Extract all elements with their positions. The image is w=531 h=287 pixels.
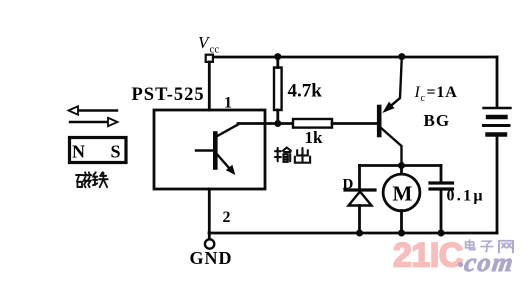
wire: diode anode to bottom rail: [358, 206, 361, 234]
junction: collector node over motor: [398, 162, 405, 169]
motor M circle: [383, 174, 420, 211]
svg-text:0.1µ: 0.1µ: [447, 188, 485, 205]
svg-text:I: I: [414, 84, 421, 101]
watermark: .com script: [458, 248, 516, 277]
magnet N-S box: [70, 138, 127, 163]
wire: right side lower (battery - to bottom rail): [496, 136, 499, 233]
svg-text:1k: 1k: [305, 128, 324, 147]
svg-text:S: S: [111, 142, 121, 162]
wire: motor bottom to rail: [400, 211, 403, 234]
label: citie (magnet) CJK drawn glyphs: [76, 172, 108, 187]
svg-text:=1A: =1A: [427, 84, 458, 101]
svg-text:N: N: [72, 142, 85, 162]
svg-text:c: c: [421, 93, 426, 104]
wire: capacitor to bottom rail: [440, 191, 443, 234]
capacitor C1 plates 0.1u: [430, 183, 453, 189]
wire: R2 to base of Q1: [332, 122, 377, 125]
hall IC U1 PST-525 box: [154, 110, 265, 189]
svg-text:GND: GND: [190, 248, 233, 268]
svg-text:BG: BG: [424, 111, 451, 130]
terminal: GND circle: [205, 239, 214, 248]
svg-text:D: D: [343, 177, 354, 193]
junction: node A (R1/1k/output): [274, 120, 281, 127]
battery B1: [484, 108, 511, 135]
magnet motion arrow right: [70, 118, 118, 126]
wire: motor branch top (diode to cap): [360, 164, 442, 167]
junction: rail over Q1 emitter: [398, 53, 405, 60]
transistor inside U1: base bar: [213, 134, 218, 168]
wire: collector node to motor top: [400, 166, 403, 175]
wire: pin 2 of U1 down to GND: [208, 189, 211, 239]
svg-text:M: M: [393, 182, 413, 206]
junction: motor on bottom rail: [398, 230, 405, 237]
wire: U1 output (collector) to node A: [238, 122, 293, 125]
svg-text:21IC: 21IC: [393, 237, 463, 275]
svg-text:1: 1: [224, 95, 232, 112]
svg-text:PST-525: PST-525: [132, 85, 205, 105]
wire: top to capacitor C1: [440, 166, 443, 182]
svg-text:com: com: [463, 248, 517, 277]
transistor Q1 BG base bar: [377, 107, 382, 135]
magnet motion arrow left: [69, 106, 118, 114]
svg-text:4.7k: 4.7k: [288, 81, 323, 102]
wire: Vcc terminal down to pin 1 of U1: [208, 62, 211, 110]
watermark: dianziwang CJK drawn glyphs: [466, 240, 513, 253]
resistor R1 4.7k body: [274, 68, 282, 111]
junction: diode on bottom rail: [356, 230, 363, 237]
label: Ic=1A: [414, 84, 458, 104]
wire: bottom ground rail: [209, 232, 497, 235]
transistor inside U1: emitter diagonal: [216, 153, 231, 170]
transistor Q1 BG collector lead: [381, 128, 402, 166]
wire: R1 bottom to node A: [276, 110, 279, 124]
svg-text:2: 2: [223, 209, 231, 226]
junction: capacitor on bottom rail: [438, 230, 445, 237]
transistor inside U1: collector diagonal: [216, 125, 239, 138]
terminal: Vcc square: [206, 55, 213, 62]
transistor inside U1: emitter arrowhead: [227, 166, 235, 174]
label: shuchu (output) CJK drawn glyphs: [275, 148, 310, 163]
junction: rail over R1: [274, 53, 281, 60]
diode D triangle: [349, 192, 372, 206]
resistor R2 1k body: [293, 119, 332, 128]
wire: right side upper (rail to battery +): [496, 57, 499, 107]
transistor inside U1: base lead: [196, 149, 215, 151]
wire: top Vcc rail: [213, 56, 497, 59]
diode D cathode bar: [345, 188, 375, 191]
transistor Q1 BG emitter arrowhead: [384, 103, 394, 113]
svg-text:cc: cc: [210, 44, 220, 56]
label: Vcc: [198, 33, 219, 56]
wire: rail to R1 top: [276, 57, 279, 68]
wire: top to diode cathode: [358, 166, 361, 189]
transistor Q1 BG emitter lead: [386, 57, 402, 110]
